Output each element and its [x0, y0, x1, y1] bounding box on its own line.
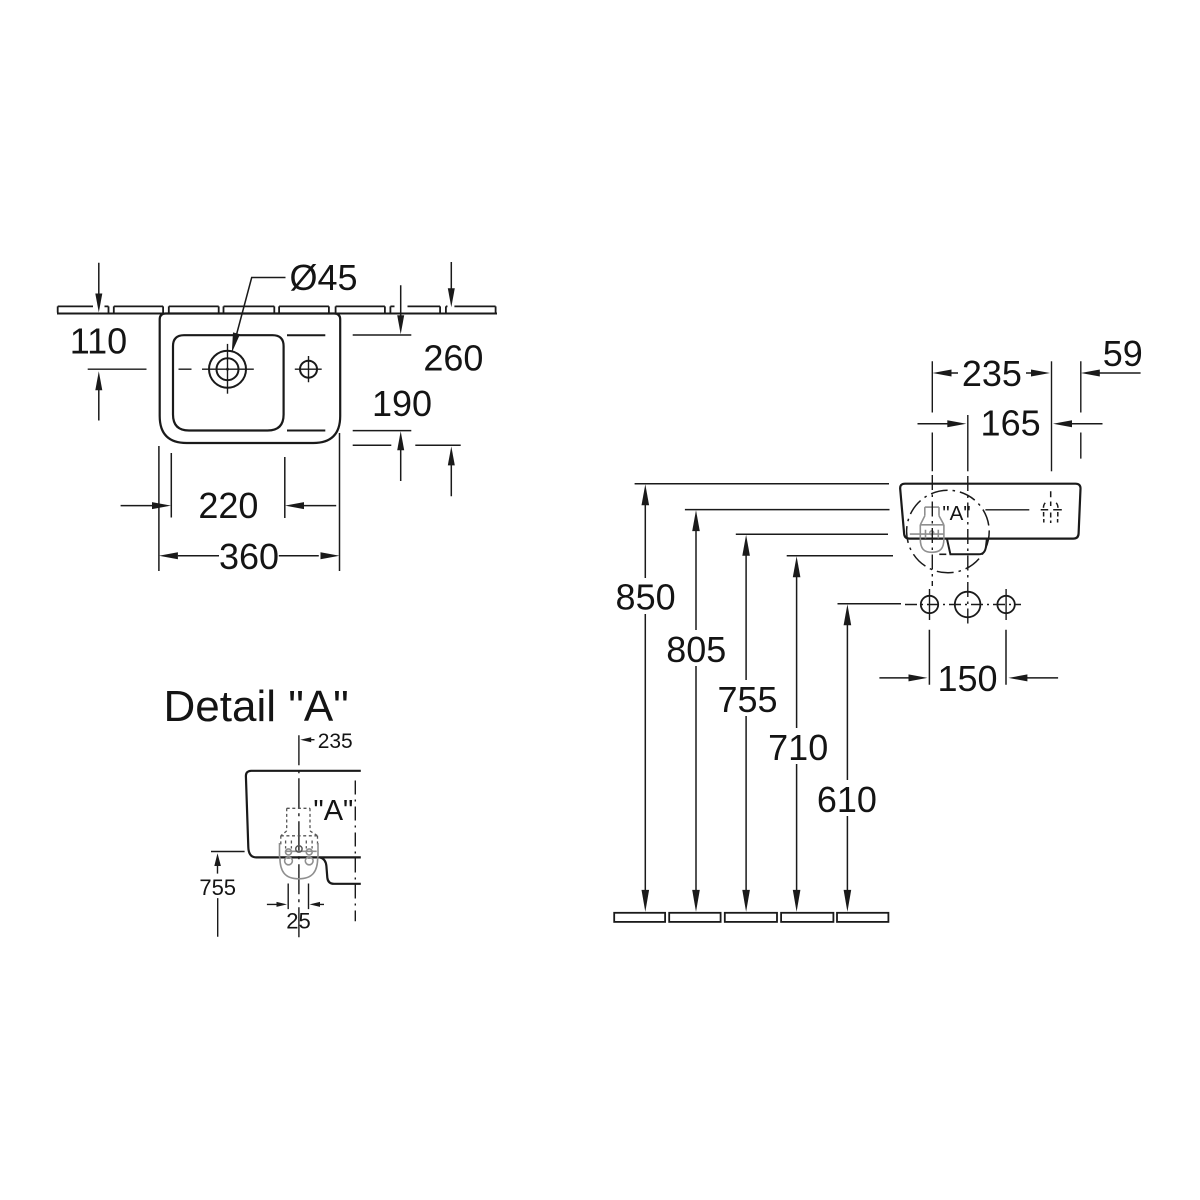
detail centerline	[298, 735, 300, 939]
svg-text:235: 235	[962, 353, 1022, 394]
label O45 leader	[236, 278, 286, 337]
tap hole center dot	[226, 368, 229, 371]
elevation centerlines	[932, 361, 1081, 624]
dimension 165	[918, 423, 1103, 425]
svg-text:220: 220	[198, 485, 258, 526]
wall face line	[57, 313, 497, 315]
detail basin outline	[246, 771, 361, 884]
detail trap body (gray)	[280, 843, 319, 879]
detail dimension 235	[300, 737, 311, 742]
svg-text:Detail "A": Detail "A"	[164, 682, 349, 731]
floor tiles	[614, 913, 888, 922]
svg-text:755: 755	[717, 679, 777, 720]
svg-text:59: 59	[1103, 333, 1143, 374]
inner bowl outline (plan)	[173, 335, 284, 430]
svg-text:260: 260	[423, 338, 483, 379]
svg-text:610: 610	[817, 779, 877, 820]
detail sump front outline	[320, 857, 361, 883]
svg-text:Ø45: Ø45	[290, 257, 358, 298]
svg-text:360: 360	[219, 536, 279, 577]
svg-text:710: 710	[768, 727, 828, 768]
svg-text:"A": "A"	[942, 502, 970, 525]
detail right datum centerline	[354, 781, 356, 922]
height dimension 850	[644, 500, 646, 897]
dimension 59	[1081, 370, 1100, 377]
dimension 360	[159, 433, 340, 571]
dimension 190	[353, 285, 412, 481]
trap (gray) in elevation	[910, 507, 945, 552]
height dimension 755	[745, 550, 747, 897]
detail drain small circle	[296, 846, 302, 852]
svg-text:190: 190	[372, 383, 432, 424]
sump below basin	[947, 539, 987, 555]
svg-text:850: 850	[616, 576, 676, 617]
tap hole centerlines	[88, 344, 254, 394]
svg-text:25: 25	[286, 909, 310, 934]
height extension lines	[635, 484, 901, 604]
hidden faucet hole (dashed)	[1041, 491, 1062, 523]
dimension 220	[121, 453, 337, 518]
dimension 110	[98, 263, 100, 421]
height dimension 610	[846, 620, 848, 897]
faucet axis line	[985, 509, 1029, 511]
detail dimension 25	[267, 884, 324, 910]
svg-text:150: 150	[937, 658, 997, 699]
svg-text:165: 165	[981, 403, 1041, 444]
dimension 260	[353, 262, 461, 496]
right deck ledge lines	[287, 335, 325, 430]
svg-text:110: 110	[70, 320, 127, 361]
detail trap hidden (dashed) outline	[281, 808, 318, 848]
keyhole slots	[286, 849, 292, 855]
holes centerlines	[905, 589, 1021, 620]
svg-text:805: 805	[666, 629, 726, 670]
second hole	[300, 361, 317, 378]
mounting holes and drain circles	[921, 592, 1015, 618]
tap hole circles	[209, 351, 246, 388]
detail dimension 755	[211, 852, 245, 937]
basin side profile	[900, 484, 1080, 539]
svg-text:755: 755	[199, 875, 236, 900]
basin outer outline (plan)	[160, 314, 341, 444]
svg-text:"A": "A"	[313, 795, 353, 827]
height dimension 805	[695, 526, 697, 897]
dimension 235 (elevation)	[950, 372, 1033, 374]
detail indicator dash-dot circle	[907, 490, 990, 573]
dimension 150	[879, 630, 1058, 685]
wall tile segments	[58, 306, 496, 312]
svg-text:235: 235	[318, 730, 353, 753]
height dimension 710	[796, 572, 798, 897]
